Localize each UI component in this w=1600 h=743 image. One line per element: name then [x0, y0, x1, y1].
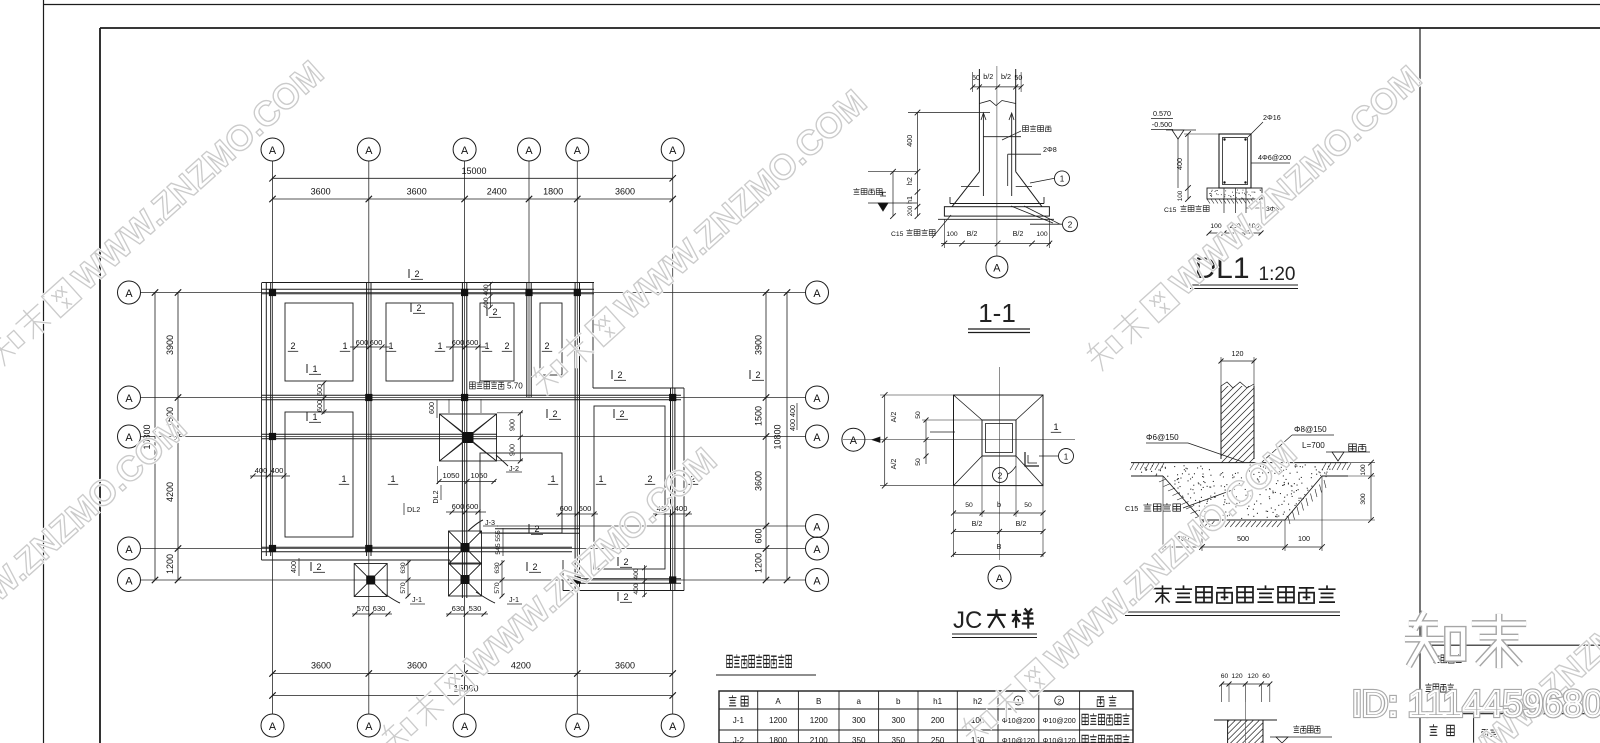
svg-text:2: 2: [755, 370, 760, 380]
svg-text:A: A: [269, 145, 277, 157]
svg-text:A/2: A/2: [889, 459, 898, 470]
dim 1050 1050 below pad J-2: [437, 466, 497, 484]
svg-text:1800: 1800: [543, 187, 563, 197]
svg-text:2400: 2400: [487, 187, 507, 197]
svg-text:A: A: [365, 145, 373, 157]
outer footing edge left: [261, 283, 263, 561]
JC bottom axis circle: [988, 566, 1011, 589]
svg-text:1: 1: [341, 474, 346, 484]
title block name label: [1482, 728, 1497, 737]
svg-text:3600: 3600: [754, 471, 764, 491]
svg-text:J-1: J-1: [733, 716, 745, 725]
wall bottom of main body (h5): [262, 547, 572, 551]
svg-text:A: A: [813, 432, 821, 444]
JC bottom extension lines: [954, 456, 1044, 557]
znzmo logo: [1405, 612, 1526, 668]
JC inner squares: [982, 420, 1016, 456]
label C15 sand cushion: [1164, 205, 1209, 214]
svg-text:50: 50: [972, 73, 980, 82]
svg-text:A: A: [996, 573, 1004, 585]
section 1-1 column shaft: [979, 69, 1015, 172]
svg-text:2: 2: [998, 472, 1003, 481]
wall along axis B (h2): [262, 395, 681, 399]
room footing edge R7: [594, 406, 665, 569]
rotated dim 600 600 left: [315, 381, 327, 415]
right wing exterior wall (v6): [671, 388, 675, 590]
svg-text:500: 500: [1237, 534, 1249, 543]
watermark 4: [375, 440, 724, 743]
table row J-1: [733, 713, 1130, 725]
room footing edge R6: [480, 453, 562, 533]
JC centerlines: [843, 367, 1075, 560]
svg-text:B/2: B/2: [972, 519, 983, 528]
svg-text:1: 1: [1053, 422, 1058, 432]
svg-text:A: A: [574, 145, 582, 157]
leader circle 1: [1030, 171, 1070, 186]
label | 2 bottom center: [526, 562, 528, 571]
svg-text:A: A: [813, 576, 821, 588]
svg-text:J-1: J-1: [412, 595, 422, 604]
JC dim 50 b 50: [951, 500, 1046, 516]
svg-text:200: 200: [907, 205, 914, 216]
svg-text:630: 630: [494, 562, 501, 574]
svg-text:J-2: J-2: [733, 736, 745, 743]
room footing edge R2: [285, 412, 353, 537]
svg-text:120: 120: [1231, 673, 1243, 680]
dim 900 900 right of pad J-2: [497, 411, 523, 464]
svg-text:1: 1: [484, 341, 489, 351]
watermark 3: [525, 82, 874, 402]
svg-text:h2: h2: [973, 697, 983, 706]
dim 570 630 below pad bottom-left: [352, 604, 392, 617]
svg-text:JC: JC: [953, 607, 982, 634]
watermark 5: [1080, 58, 1429, 378]
section 1-1 top dim: [970, 72, 1023, 92]
svg-text:600: 600: [754, 528, 764, 543]
svg-text:A: A: [125, 393, 133, 405]
inner frame left edge: [99, 28, 101, 743]
svg-text:h1: h1: [933, 697, 943, 706]
section 1-1 centerline: [996, 66, 998, 256]
plan grid vertical lines: [273, 161, 673, 715]
DL1 bottom bars: [1224, 188, 1246, 213]
room footing edge R4b: [540, 303, 562, 375]
svg-text:2: 2: [316, 562, 321, 572]
dim 630 530 below pad center-bottom: [446, 604, 488, 617]
svg-text:h2: h2: [905, 177, 914, 185]
svg-text:2: 2: [290, 341, 295, 351]
svg-text:600: 600: [452, 502, 465, 511]
svg-text:60: 60: [1221, 673, 1229, 680]
step wall right of axis 5 (v7): [592, 283, 594, 389]
svg-text:1200: 1200: [810, 716, 829, 725]
leader J-1 bottom-left: [382, 592, 425, 604]
left dimension segments 3900 1500 4200 1200: [165, 289, 181, 583]
outer footing edge top: [262, 282, 594, 284]
DL1 level labels: [1151, 109, 1196, 188]
section 1-1 bottom rebar: [950, 197, 1044, 204]
svg-text:a: a: [857, 697, 862, 706]
svg-text:Φ10@200: Φ10@200: [1043, 716, 1076, 725]
wall detail title: [1125, 585, 1340, 615]
svg-text:B: B: [997, 542, 1002, 551]
svg-text:2100: 2100: [810, 736, 829, 743]
svg-text:A: A: [775, 697, 781, 706]
svg-text:250: 250: [931, 736, 945, 743]
DL1 bottom dim: [1207, 223, 1264, 236]
svg-text:H: H: [879, 191, 888, 197]
svg-text:570: 570: [357, 604, 370, 613]
svg-text:A: A: [125, 288, 133, 300]
JC dim B: [951, 542, 1046, 557]
soil hatch below excavation: [1130, 463, 1351, 527]
leader J-3: [468, 518, 498, 531]
svg-text:2: 2: [414, 269, 419, 279]
rotated dim 400 400 wing bottom: [633, 565, 647, 597]
title block project name label 2: [1425, 683, 1454, 692]
dim 600 600 at axis2: [350, 338, 390, 350]
svg-text:C15: C15: [1164, 207, 1177, 214]
svg-text:300: 300: [852, 716, 866, 725]
wall detail bottom dim: [1160, 476, 1325, 551]
label C15 plain concrete cushion: [1125, 489, 1235, 513]
svg-text:2: 2: [534, 524, 539, 534]
room labels row 2: [339, 474, 698, 484]
footing pad J-1 center-bottom: [449, 563, 482, 596]
svg-text:2: 2: [416, 303, 421, 313]
svg-text:1: 1: [390, 474, 395, 484]
svg-text:B/2: B/2: [1016, 519, 1027, 528]
DL1 title: [1190, 252, 1298, 289]
watermark 1: [0, 53, 331, 373]
label phi6-150: [1146, 433, 1243, 462]
svg-text:1: 1: [342, 341, 347, 351]
svg-text:0.570: 0.570: [1153, 109, 1171, 118]
column detail floor line: [1214, 719, 1277, 721]
svg-text:A: A: [461, 145, 469, 157]
svg-text:3600: 3600: [615, 187, 635, 197]
svg-text:3900: 3900: [754, 335, 764, 355]
right dimension segments 3900 1500 3600 600 1200: [754, 289, 770, 583]
dim 600 600 below R4: [446, 502, 486, 515]
svg-text:545: 545: [495, 543, 502, 555]
svg-text:ID: 1114459680: ID: 1114459680: [1352, 683, 1600, 724]
bottom dimension total 15000: [269, 684, 676, 699]
svg-text:A: A: [669, 721, 677, 733]
svg-text:900: 900: [508, 419, 517, 431]
column detail centerline: [1244, 700, 1246, 743]
svg-text:1200: 1200: [165, 554, 175, 574]
interior wall h4: [495, 529, 580, 533]
room footing edge R3: [386, 303, 453, 381]
JC leader circle 2: [993, 466, 1017, 483]
svg-text:200: 200: [931, 716, 945, 725]
table grid: [719, 691, 1133, 743]
svg-text:DL2: DL2: [407, 505, 420, 514]
label phi8-150 L=700: [1262, 425, 1334, 462]
leader J-1 center-bottom: [476, 592, 522, 604]
svg-text:570: 570: [400, 582, 407, 594]
svg-text:A: A: [269, 721, 277, 733]
wall bottom of right wing (h6): [568, 579, 681, 583]
JC corner bracket detail: [1025, 452, 1039, 466]
svg-text:C15: C15: [1125, 504, 1138, 513]
label steel mesh: [1002, 125, 1051, 140]
room footing edge R1: [285, 303, 353, 381]
label | 2 near J-3: [528, 524, 530, 533]
JC 50 offsets dim: [915, 411, 982, 466]
label | 2 below right wing: [617, 592, 619, 601]
svg-text:1: 1: [388, 341, 393, 351]
label indoor floor level: [1270, 725, 1332, 743]
JC diagonals: [954, 395, 1044, 486]
JC dim B/2 B/2: [951, 519, 1046, 534]
svg-text:1200: 1200: [769, 716, 788, 725]
bottom dimension segments 3600 3600 4200 3600: [269, 661, 676, 677]
dim 400 400 at left wall: [250, 466, 290, 479]
svg-text:120: 120: [1232, 349, 1244, 358]
svg-text:A: A: [125, 576, 133, 588]
svg-text:A: A: [813, 522, 821, 534]
svg-text:b: b: [997, 500, 1001, 509]
svg-text:b/2: b/2: [983, 72, 993, 81]
JC outer square: [954, 395, 1044, 486]
svg-text:3600: 3600: [615, 661, 635, 671]
section 1-1 haunch: [952, 172, 1042, 207]
svg-text:400: 400: [788, 419, 797, 431]
watermark 7: [1370, 535, 1600, 743]
svg-text:100: 100: [946, 231, 958, 238]
svg-text:120: 120: [1247, 673, 1259, 680]
svg-text:2: 2: [544, 341, 549, 351]
svg-text:A: A: [365, 721, 373, 733]
rotated dims 630 570 at pad center-bottom: [494, 560, 505, 599]
svg-text:4Φ6@200: 4Φ6@200: [1258, 153, 1291, 162]
svg-text:2Φ8: 2Φ8: [1043, 145, 1057, 154]
svg-text:A: A: [850, 435, 858, 447]
svg-text:100: 100: [1298, 534, 1310, 543]
svg-text:A: A: [125, 544, 133, 556]
svg-text:1050: 1050: [471, 471, 488, 480]
JC title: [952, 607, 1037, 638]
JC left axis circle: [842, 428, 880, 451]
svg-text:A: A: [461, 721, 469, 733]
wall on axis 4 (v4): [527, 283, 531, 397]
pad J-2 top extension lines: [449, 399, 481, 413]
dim 600 600 near axis5 low: [556, 504, 598, 517]
svg-text:60: 60: [1262, 673, 1270, 680]
top axis circles A: [261, 138, 684, 161]
label | 2 step area: [611, 370, 613, 379]
svg-text:3900: 3900: [165, 335, 175, 355]
svg-text:1-1: 1-1: [978, 298, 1016, 328]
svg-text:100: 100: [1177, 190, 1184, 201]
svg-text:Φ10@120: Φ10@120: [1043, 736, 1076, 743]
table row J-2: [733, 734, 1130, 743]
plan grid horizontal lines: [141, 293, 806, 581]
label | 2 left bottom: [310, 562, 312, 571]
top dimension segments 3600 3600 2400 1800 3600: [269, 187, 676, 203]
excavation outline: [1131, 476, 1348, 520]
svg-text:A: A: [813, 288, 821, 300]
svg-text:3600: 3600: [311, 661, 331, 671]
label DL2: [404, 503, 420, 515]
outer footing edge right wing right: [683, 388, 685, 591]
ground level label: [1326, 444, 1370, 461]
DL1 left dim: [1175, 131, 1219, 202]
svg-text:100: 100: [1360, 464, 1367, 476]
svg-text:5.70: 5.70: [507, 382, 523, 391]
svg-text:1:20: 1:20: [1259, 264, 1296, 285]
rotated dim 400 right wing: [788, 403, 797, 431]
outer border top line: [44, 4, 1600, 6]
outer footing edge step near axis5: [562, 560, 564, 591]
wall detail hatched wall: [1221, 353, 1254, 491]
label | 1 R2 top: [306, 412, 308, 421]
svg-text:600: 600: [560, 504, 573, 513]
title block line 2: [1420, 713, 1600, 715]
title block project name label 1: [1433, 654, 1462, 663]
svg-text:-0.500: -0.500: [1152, 120, 1172, 129]
svg-text:1200: 1200: [754, 553, 764, 573]
svg-text:400: 400: [271, 466, 284, 475]
svg-text:630: 630: [373, 604, 386, 613]
concrete stipple: [1141, 464, 1331, 519]
label | 1 R1 bottom: [306, 364, 308, 373]
svg-text:300: 300: [892, 716, 906, 725]
room labels row 1: [288, 303, 552, 351]
svg-text:1: 1: [312, 364, 317, 374]
label 2 phi 16: [1248, 113, 1281, 137]
svg-text:630: 630: [400, 562, 407, 574]
column detail dim 60 120 120 60: [1219, 673, 1272, 702]
svg-text:1050: 1050: [443, 471, 460, 480]
svg-text:Φ6@150: Φ6@150: [1146, 433, 1179, 442]
beam level note: [470, 381, 524, 390]
svg-text:A: A: [993, 263, 1001, 275]
bottom axis circles A: [261, 714, 684, 737]
svg-text:L=700: L=700: [1302, 441, 1325, 450]
column detail hatched wall: [1228, 687, 1263, 743]
svg-text:1: 1: [437, 341, 442, 351]
svg-text:400: 400: [633, 583, 640, 595]
svg-text:2: 2: [1057, 699, 1061, 706]
svg-text:Φ10@120: Φ10@120: [1002, 736, 1035, 743]
svg-text:b: b: [896, 697, 901, 706]
svg-text:C15: C15: [891, 231, 904, 238]
label | 2 right wing top: [749, 370, 751, 379]
svg-text:555: 555: [495, 530, 502, 542]
svg-text:A: A: [813, 544, 821, 556]
svg-text:1: 1: [1064, 453, 1069, 462]
dim 400 400 near axis6 low: [653, 504, 692, 517]
svg-text:50: 50: [915, 458, 922, 466]
svg-text:2: 2: [619, 409, 624, 419]
footing pad J-3: [449, 531, 482, 564]
svg-text:600: 600: [315, 384, 324, 396]
rotated dim 400 left bottom: [289, 558, 299, 576]
svg-text:4200: 4200: [511, 661, 531, 671]
svg-text:A: A: [525, 145, 533, 157]
svg-text:15000: 15000: [461, 166, 486, 176]
watermark 6: [955, 433, 1304, 743]
title block cell divider: [1473, 714, 1475, 743]
title block divider vertical: [1419, 28, 1421, 743]
leader J-2: [496, 455, 522, 473]
label | 2 R7: [613, 409, 615, 418]
section 1-1 rebar bars: [981, 113, 1041, 196]
svg-text:400: 400: [1175, 158, 1184, 170]
svg-text:Φ8@150: Φ8@150: [1294, 425, 1327, 434]
section 1-1 title: [968, 298, 1030, 333]
label 3 phi 6: [1246, 206, 1279, 213]
svg-text:900: 900: [508, 444, 517, 456]
leader circle 2: [1011, 206, 1078, 232]
svg-text:350: 350: [852, 736, 866, 743]
watermark 2: [0, 408, 194, 728]
svg-text:1: 1: [598, 474, 603, 484]
svg-text:400: 400: [483, 297, 490, 309]
wall on axis 2 (v2): [367, 283, 371, 556]
wall on axis 3 (v3): [462, 283, 466, 598]
outer footing edge right wing top: [593, 387, 684, 389]
column squares at wall intersections: [269, 289, 676, 584]
rotated label DL2: [431, 485, 441, 504]
svg-text:1800: 1800: [769, 736, 788, 743]
svg-text:50: 50: [965, 502, 973, 509]
svg-text:1: 1: [1060, 175, 1065, 184]
svg-text:400: 400: [788, 405, 797, 417]
label section mark above top wall: [408, 269, 410, 278]
outer footing edge bottom main body: [262, 559, 451, 561]
right dimension total 10800: [773, 289, 791, 583]
left dimension total 10800: [142, 289, 158, 583]
wall top edge (h1): [262, 289, 594, 293]
svg-text:A: A: [574, 721, 582, 733]
svg-text:400: 400: [905, 135, 914, 147]
svg-text:3600: 3600: [407, 187, 427, 197]
svg-text:2: 2: [617, 370, 622, 380]
svg-text:400: 400: [255, 466, 268, 475]
title block line 1: [1420, 644, 1600, 646]
svg-text:1: 1: [312, 412, 317, 422]
label 2-phi-8: [1043, 145, 1057, 154]
svg-text:2: 2: [504, 341, 509, 351]
dim 600 600 at axis3: [446, 338, 486, 350]
wall on axis 5 (v5): [575, 283, 579, 590]
left axis circles A: [118, 281, 141, 592]
outer border vertical line: [43, 0, 45, 743]
rotated dims 630 570 at pad bottom-left: [400, 560, 411, 599]
JC leader circle 1: [1039, 449, 1074, 464]
svg-text:4200: 4200: [165, 482, 175, 502]
footing pad J-2 center: [440, 414, 497, 461]
svg-text:300: 300: [1360, 493, 1367, 505]
section 1-1 footing slab: [938, 207, 1054, 220]
svg-text:50: 50: [915, 411, 922, 419]
title block sub item label: [1429, 724, 1454, 735]
svg-text:600: 600: [466, 338, 479, 347]
svg-text:3600: 3600: [407, 661, 427, 671]
svg-text:600: 600: [427, 402, 436, 414]
svg-text:100: 100: [1036, 231, 1048, 238]
rotated dim 600 at pad top: [427, 400, 437, 418]
svg-text:A/2: A/2: [889, 412, 898, 423]
svg-text:2: 2: [532, 562, 537, 572]
svg-text:2: 2: [492, 307, 497, 317]
outer footing edge right wing bottom: [563, 590, 684, 592]
label C15 cushion 1-1: [891, 215, 951, 238]
